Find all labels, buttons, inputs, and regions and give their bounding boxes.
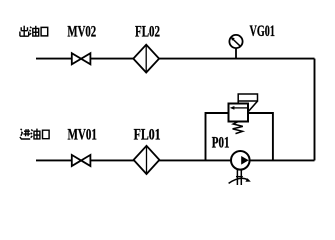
relief valve pilot box (small rectangle above) xyxy=(238,94,257,101)
filter FL02 (diamond with vertical line) xyxy=(133,45,159,73)
pump rotation arrow (curved, arrowhead right) xyxy=(229,178,248,183)
svg-text:VG01: VG01 xyxy=(250,23,275,40)
relief valve spring xyxy=(233,122,243,134)
wire: top outlet line xyxy=(36,58,315,60)
wire: relief bypass loop (left vertical, top edge, right vertical) xyxy=(206,113,273,160)
svg-text:P01: P01 xyxy=(212,134,230,151)
svg-text:MV01: MV01 xyxy=(68,127,97,144)
svg-text:FL01: FL01 xyxy=(134,127,161,144)
wire: pilot diagonal line xyxy=(248,101,257,112)
relief valve internal arrow (points left) xyxy=(230,106,248,110)
pressure gauge VG01 xyxy=(229,35,242,59)
pump P01 (circle with right-pointing triangle) xyxy=(231,151,250,170)
filter FL01 (diamond with vertical line) xyxy=(134,146,160,174)
wire: right vertical connecting top line to bottom line xyxy=(314,59,316,161)
wire: bottom inlet line xyxy=(36,159,315,161)
label 出油口 (oil outlet) xyxy=(20,26,48,37)
valve MV01 (manual shut-off, bowtie) xyxy=(72,155,91,166)
svg-text:MV02: MV02 xyxy=(67,24,96,41)
relief valve body (square on bypass loop) xyxy=(229,104,249,122)
wire: stem from pilot box to valve body xyxy=(237,101,239,104)
pump drive shaft (double line below) xyxy=(236,169,238,185)
valve MV02 (manual shut-off, bowtie) xyxy=(72,53,91,64)
label 进油口 (oil inlet) xyxy=(20,129,49,139)
svg-text:FL02: FL02 xyxy=(135,24,160,41)
